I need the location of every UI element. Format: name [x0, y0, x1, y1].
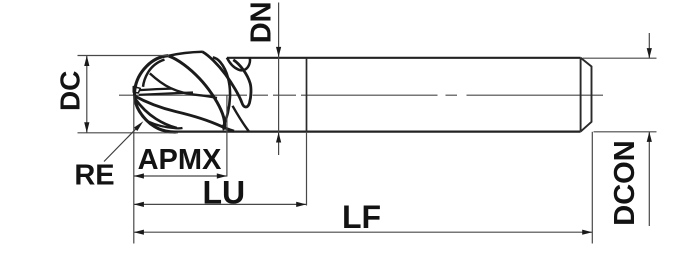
- flute 1 trailing edge: [213, 57, 230, 128]
- dimension DC extension top: [78, 55, 169, 57]
- RE leader arrow: [134, 121, 144, 131]
- dimension DCON arrow top: [647, 48, 652, 58]
- svg-text:DCON: DCON: [609, 140, 641, 225]
- dimension DCON arrow bottom: [647, 132, 652, 142]
- shank end chamfer edge: [580, 58, 582, 132]
- face edge E1: [150, 73, 217, 98]
- APMX arrow left: [134, 173, 144, 178]
- svg-text:APMX: APMX: [138, 144, 222, 176]
- dimension LU line: [134, 203, 306, 205]
- LU arrow left: [134, 202, 144, 207]
- ball inner cutting edge: [143, 60, 165, 87]
- LU right extension: [306, 132, 308, 206]
- LU arrow right: [296, 202, 306, 207]
- svg-text:RE: RE: [74, 159, 114, 191]
- dimension DCON line bottom: [648, 132, 650, 226]
- svg-text:DC: DC: [54, 71, 85, 111]
- dimension DCON extension bottom: [594, 131, 657, 133]
- shank end face: [581, 58, 592, 132]
- shank boundary line: [306, 58, 308, 132]
- dimension APMX line: [134, 175, 227, 177]
- top scallop: [227, 58, 250, 71]
- left extension line: [133, 96, 135, 244]
- dimension DC arrow down: [84, 122, 89, 133]
- APMX right extension: [226, 96, 228, 177]
- flute 2 leading edge and end curl: [203, 52, 251, 107]
- dimension DCON extension top: [583, 57, 657, 59]
- dimension DCON line top: [648, 33, 650, 58]
- dimension DC extension bottom: [78, 132, 179, 134]
- body top edge: [227, 57, 581, 59]
- LF arrow left: [134, 230, 144, 235]
- lower cutting edge C2: [134, 96, 234, 132]
- tip flat upper line: [140, 89, 172, 91]
- flute top silhouette: [168, 52, 203, 56]
- tip chisel quad: [133, 87, 140, 93]
- dimension DN arrow top: [276, 47, 281, 57]
- svg-text:LU: LU: [202, 174, 245, 210]
- lower cutting edge C3: [135, 98, 177, 128]
- body bottom edge: [176, 131, 581, 133]
- RE leader line: [104, 126, 139, 162]
- ball nose outline: [135, 56, 177, 132]
- bottom inner edge: [149, 122, 183, 129]
- flute 1 leading edge: [169, 56, 225, 129]
- tip flat lower line: [139, 93, 193, 95]
- dimension DC arrow up: [84, 56, 89, 67]
- svg-text:DN: DN: [245, 1, 277, 43]
- dimension LF line: [134, 231, 593, 233]
- LF arrow right: [582, 230, 592, 235]
- dimension DC line: [86, 56, 88, 133]
- LF right extension: [591, 132, 593, 244]
- svg-text:LF: LF: [342, 199, 381, 235]
- dimension DN arrow bottom: [276, 132, 281, 142]
- dimension DN line: [278, 3, 280, 156]
- flute bottom end edge: [233, 106, 249, 131]
- APMX arrow right: [217, 173, 227, 178]
- centerline: [119, 94, 603, 96]
